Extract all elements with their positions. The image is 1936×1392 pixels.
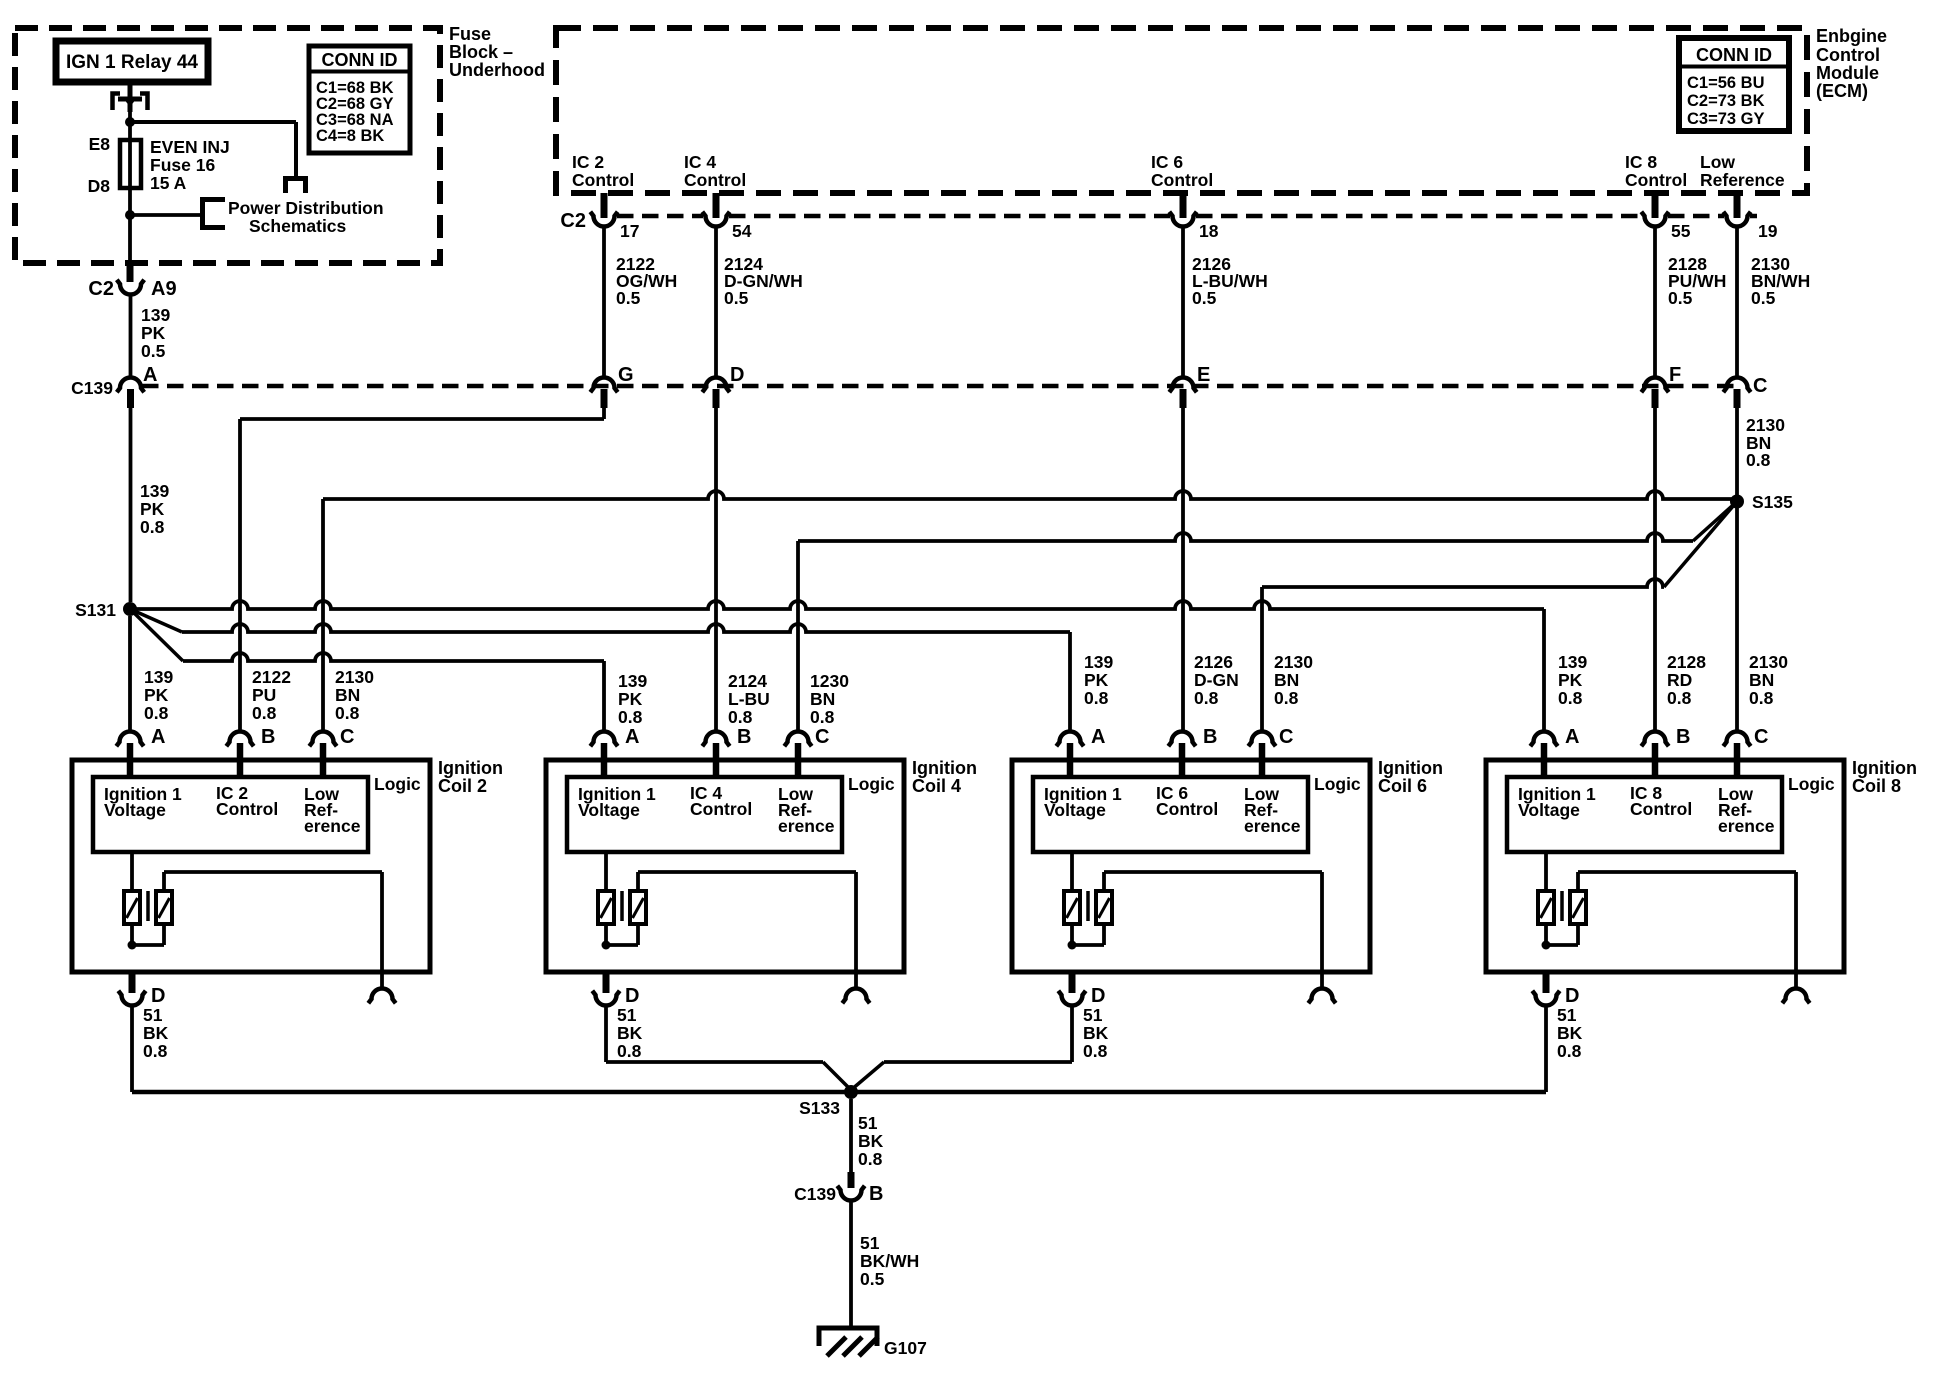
svg-text:Enbgine: Enbgine xyxy=(1816,26,1887,46)
svg-text:0.8: 0.8 xyxy=(1557,1041,1582,1061)
svg-text:2126: 2126 xyxy=(1194,652,1233,672)
svg-text:C2=73 BK: C2=73 BK xyxy=(1687,92,1765,110)
svg-text:L-BU: L-BU xyxy=(728,689,770,709)
svg-text:Power Distribution: Power Distribution xyxy=(228,198,384,218)
svg-text:Schematics: Schematics xyxy=(249,216,347,236)
svg-text:0.8: 0.8 xyxy=(1558,688,1583,708)
svg-text:BK/WH: BK/WH xyxy=(860,1251,919,1271)
svg-text:0.5: 0.5 xyxy=(1192,288,1217,308)
svg-text:B: B xyxy=(1203,726,1217,748)
svg-text:2130: 2130 xyxy=(335,667,374,687)
svg-text:0.8: 0.8 xyxy=(1749,688,1774,708)
svg-text:B: B xyxy=(869,1183,883,1205)
svg-text:C: C xyxy=(1753,375,1767,397)
svg-text:Fuse 16: Fuse 16 xyxy=(150,155,215,175)
svg-text:0.8: 0.8 xyxy=(728,707,753,727)
svg-text:51: 51 xyxy=(143,1005,163,1025)
svg-text:CONN ID: CONN ID xyxy=(1696,45,1772,65)
svg-text:EVEN INJ: EVEN INJ xyxy=(150,137,230,157)
svg-text:S131: S131 xyxy=(75,600,116,620)
svg-text:17: 17 xyxy=(620,221,639,241)
svg-text:D: D xyxy=(1565,985,1579,1007)
svg-text:F: F xyxy=(1669,364,1681,386)
svg-text:C139: C139 xyxy=(794,1184,836,1204)
svg-text:BN: BN xyxy=(335,685,360,705)
svg-text:0.8: 0.8 xyxy=(1746,450,1771,470)
svg-text:54: 54 xyxy=(732,221,752,241)
svg-text:IGN 1 Relay 44: IGN 1 Relay 44 xyxy=(66,52,198,73)
svg-text:erence: erence xyxy=(1244,816,1301,836)
svg-text:A9: A9 xyxy=(151,278,177,300)
svg-text:PU: PU xyxy=(252,685,276,705)
svg-text:C2: C2 xyxy=(88,278,114,300)
svg-text:Block –: Block – xyxy=(449,42,513,62)
svg-text:PK: PK xyxy=(618,689,643,709)
svg-text:Control: Control xyxy=(572,170,634,190)
svg-text:0.8: 0.8 xyxy=(1274,688,1299,708)
svg-text:D8: D8 xyxy=(88,176,111,196)
svg-text:0.5: 0.5 xyxy=(860,1269,885,1289)
svg-text:0.8: 0.8 xyxy=(1084,688,1109,708)
svg-text:139: 139 xyxy=(144,667,173,687)
svg-text:139: 139 xyxy=(141,305,170,325)
svg-text:BN: BN xyxy=(810,689,835,709)
svg-text:erence: erence xyxy=(778,816,835,836)
svg-text:2130: 2130 xyxy=(1746,415,1785,435)
svg-text:2128: 2128 xyxy=(1667,652,1706,672)
svg-text:B: B xyxy=(1676,726,1690,748)
svg-text:CONN ID: CONN ID xyxy=(322,50,398,70)
svg-text:Fuse: Fuse xyxy=(449,24,491,44)
svg-text:18: 18 xyxy=(1199,221,1219,241)
svg-text:Logic: Logic xyxy=(1314,774,1361,794)
svg-text:A: A xyxy=(151,726,165,748)
svg-text:BN: BN xyxy=(1274,670,1299,690)
svg-text:D: D xyxy=(1091,985,1105,1007)
svg-text:Logic: Logic xyxy=(848,774,895,794)
svg-text:Control: Control xyxy=(1630,799,1692,819)
svg-text:51: 51 xyxy=(860,1233,880,1253)
svg-text:0.8: 0.8 xyxy=(810,707,835,727)
svg-text:D-GN: D-GN xyxy=(1194,670,1239,690)
svg-text:C1=56 BU: C1=56 BU xyxy=(1687,74,1765,92)
svg-text:0.5: 0.5 xyxy=(724,288,749,308)
svg-text:E: E xyxy=(1197,364,1210,386)
svg-text:Underhood: Underhood xyxy=(449,60,545,80)
svg-text:BK: BK xyxy=(1083,1023,1109,1043)
svg-text:0.8: 0.8 xyxy=(1667,688,1692,708)
svg-text:C4=8 BK: C4=8 BK xyxy=(316,127,384,145)
svg-text:Control: Control xyxy=(1816,45,1880,65)
svg-text:D: D xyxy=(151,985,165,1007)
svg-text:A: A xyxy=(1091,726,1105,748)
svg-text:B: B xyxy=(737,726,751,748)
svg-text:0.8: 0.8 xyxy=(143,1041,168,1061)
svg-text:Coil 6: Coil 6 xyxy=(1378,776,1427,796)
svg-text:139: 139 xyxy=(1084,652,1113,672)
svg-text:0.5: 0.5 xyxy=(1751,288,1776,308)
svg-text:erence: erence xyxy=(304,816,361,836)
svg-text:C2: C2 xyxy=(560,210,586,232)
svg-text:Control: Control xyxy=(1156,799,1218,819)
svg-text:Voltage: Voltage xyxy=(1044,800,1106,820)
svg-text:IC 8: IC 8 xyxy=(1625,152,1657,172)
svg-text:0.5: 0.5 xyxy=(141,341,166,361)
svg-text:(ECM): (ECM) xyxy=(1816,81,1868,101)
svg-text:0.8: 0.8 xyxy=(858,1149,883,1169)
svg-text:Ignition: Ignition xyxy=(1378,758,1443,778)
svg-text:Ignition: Ignition xyxy=(1852,758,1917,778)
svg-text:0.8: 0.8 xyxy=(1083,1041,1108,1061)
svg-text:51: 51 xyxy=(1557,1005,1577,1025)
svg-text:0.5: 0.5 xyxy=(1668,288,1693,308)
svg-text:A: A xyxy=(625,726,639,748)
svg-text:A: A xyxy=(1565,726,1579,748)
svg-text:0.8: 0.8 xyxy=(617,1041,642,1061)
svg-text:C: C xyxy=(340,726,354,748)
svg-text:139: 139 xyxy=(618,671,647,691)
svg-text:139: 139 xyxy=(1558,652,1587,672)
svg-text:Control: Control xyxy=(1151,170,1213,190)
svg-text:D: D xyxy=(730,364,744,386)
svg-text:2122: 2122 xyxy=(252,667,291,687)
svg-text:Coil 2: Coil 2 xyxy=(438,776,487,796)
svg-text:Voltage: Voltage xyxy=(1518,800,1580,820)
svg-text:0.5: 0.5 xyxy=(616,288,641,308)
svg-text:0.8: 0.8 xyxy=(144,703,169,723)
svg-text:S133: S133 xyxy=(799,1098,840,1118)
svg-text:PK: PK xyxy=(1084,670,1109,690)
svg-text:S135: S135 xyxy=(1752,492,1793,512)
svg-text:Logic: Logic xyxy=(374,774,421,794)
svg-text:Coil 8: Coil 8 xyxy=(1852,776,1901,796)
svg-text:BN: BN xyxy=(1749,670,1774,690)
svg-text:C: C xyxy=(815,726,829,748)
svg-text:C139: C139 xyxy=(71,378,113,398)
svg-text:2130: 2130 xyxy=(1274,652,1313,672)
svg-text:Voltage: Voltage xyxy=(104,800,166,820)
svg-text:139: 139 xyxy=(140,481,169,501)
svg-text:0.8: 0.8 xyxy=(335,703,360,723)
svg-text:PK: PK xyxy=(140,499,165,519)
svg-text:Control: Control xyxy=(690,799,752,819)
svg-text:G: G xyxy=(618,364,634,386)
svg-text:RD: RD xyxy=(1667,670,1692,690)
svg-text:19: 19 xyxy=(1758,221,1778,241)
svg-text:IC 2: IC 2 xyxy=(572,152,604,172)
svg-text:2130: 2130 xyxy=(1749,652,1788,672)
svg-text:B: B xyxy=(261,726,275,748)
svg-text:D: D xyxy=(625,985,639,1007)
svg-text:IC 4: IC 4 xyxy=(684,152,716,172)
svg-text:51: 51 xyxy=(1083,1005,1103,1025)
svg-text:G107: G107 xyxy=(884,1338,927,1358)
svg-text:Control: Control xyxy=(684,170,746,190)
svg-text:C: C xyxy=(1754,726,1768,748)
svg-text:51: 51 xyxy=(617,1005,637,1025)
svg-text:2124: 2124 xyxy=(728,671,767,691)
svg-text:0.8: 0.8 xyxy=(252,703,277,723)
svg-text:0.8: 0.8 xyxy=(1194,688,1219,708)
svg-text:Voltage: Voltage xyxy=(578,800,640,820)
svg-text:15 A: 15 A xyxy=(150,173,187,193)
svg-text:BK: BK xyxy=(858,1131,884,1151)
svg-text:1230: 1230 xyxy=(810,671,849,691)
svg-text:51: 51 xyxy=(858,1113,878,1133)
svg-text:PK: PK xyxy=(141,323,166,343)
svg-text:Module: Module xyxy=(1816,63,1879,83)
svg-text:BK: BK xyxy=(143,1023,169,1043)
svg-text:PK: PK xyxy=(1558,670,1583,690)
svg-text:55: 55 xyxy=(1671,221,1691,241)
svg-text:Coil 4: Coil 4 xyxy=(912,776,961,796)
svg-text:C3=73 GY: C3=73 GY xyxy=(1687,110,1765,128)
svg-text:Logic: Logic xyxy=(1788,774,1835,794)
svg-text:0.8: 0.8 xyxy=(140,517,165,537)
svg-text:Ignition: Ignition xyxy=(912,758,977,778)
svg-text:A: A xyxy=(143,364,157,386)
svg-text:Ignition: Ignition xyxy=(438,758,503,778)
svg-text:Control: Control xyxy=(1625,170,1687,190)
svg-text:Low: Low xyxy=(1700,152,1735,172)
svg-text:BK: BK xyxy=(617,1023,643,1043)
svg-text:Reference: Reference xyxy=(1700,170,1785,190)
svg-text:BK: BK xyxy=(1557,1023,1583,1043)
svg-text:IC 6: IC 6 xyxy=(1151,152,1183,172)
svg-text:Control: Control xyxy=(216,799,278,819)
svg-text:PK: PK xyxy=(144,685,169,705)
svg-text:erence: erence xyxy=(1718,816,1775,836)
svg-text:C: C xyxy=(1279,726,1293,748)
svg-text:E8: E8 xyxy=(89,134,111,154)
svg-text:0.8: 0.8 xyxy=(618,707,643,727)
